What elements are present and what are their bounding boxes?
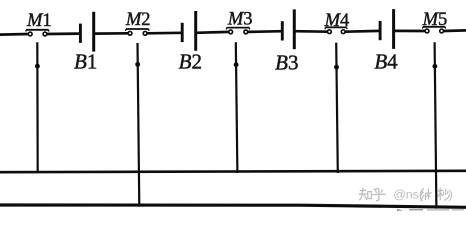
- svg-text:B1: B1: [74, 50, 97, 74]
- svg-text:@ns(: @ns(: [393, 188, 424, 202]
- switch M4 right terminal circle: [341, 30, 345, 34]
- switch M4 left terminal circle: [328, 30, 332, 34]
- svg-text:M5: M5: [422, 10, 448, 30]
- svg-text:): ): [449, 188, 453, 202]
- svg-text:B4: B4: [374, 50, 398, 74]
- switch M1 left terminal circle: [28, 32, 32, 36]
- switch M1 right terminal circle: [43, 32, 47, 36]
- wire: left edge to M1: [0, 33, 28, 36]
- watermark glyph 知: [359, 188, 367, 199]
- wire: B1 to M2: [94, 32, 128, 35]
- junction dot on M2 branch: [135, 62, 140, 67]
- watermark glyph 乎: [373, 189, 385, 201]
- wire: M4 to B4: [345, 30, 380, 34]
- wire: M2 to B2: [147, 31, 182, 34]
- switch M3 contact bar: [227, 27, 250, 29]
- svg-text:M2: M2: [125, 10, 151, 30]
- switch M2 contact bar: [126, 28, 149, 30]
- wire: M5 to right edge: [444, 29, 466, 32]
- battery B2 short plate (negative): [181, 23, 184, 42]
- bus A (upper horizontal bus): [0, 171, 466, 172]
- battery B1 long plate (positive): [92, 12, 95, 52]
- junction dot on M5 branch: [432, 64, 437, 69]
- switch M5 right terminal circle: [440, 29, 444, 33]
- svg-text:M3: M3: [227, 10, 253, 30]
- svg-text:M1: M1: [26, 11, 52, 31]
- junction dot on M4 branch: [334, 65, 339, 70]
- junction dot on M3 branch: [234, 62, 239, 67]
- watermark glyph 秒: [438, 188, 450, 200]
- switch M3 right terminal circle: [244, 30, 248, 34]
- battery B1 short plate (negative): [79, 24, 82, 43]
- battery B3 short plate (negative): [281, 21, 284, 40]
- battery B4 short plate (negative): [379, 21, 382, 40]
- switch M5 contact bar: [423, 26, 445, 28]
- svg-text:B3: B3: [275, 51, 298, 75]
- bus B (bottom horizontal bus): [0, 205, 466, 207]
- switch M2 left terminal circle: [128, 31, 132, 35]
- battery B4 long plate (positive): [392, 9, 395, 49]
- wire: vertical from M2 down to bus: [138, 43, 140, 207]
- switch M3 left terminal circle: [229, 30, 233, 34]
- wire: vertical from M4 down to bus: [336, 43, 338, 173]
- svg-text:B2: B2: [179, 49, 202, 73]
- watermark glyph 纳: [420, 189, 431, 201]
- junction dot on M1 branch: [35, 64, 40, 69]
- wire: M3 to B3: [248, 30, 283, 33]
- switch M5 left terminal circle: [425, 29, 429, 33]
- wire: B3 to M4: [294, 30, 327, 33]
- battery B2 long plate (positive): [194, 11, 197, 51]
- wire: M1 to B1: [47, 32, 81, 35]
- svg-text:M4: M4: [324, 11, 350, 31]
- wire: vertical from M1 down to bus: [36, 42, 39, 173]
- switch M2 right terminal circle: [143, 31, 147, 35]
- battery B3 long plate (positive): [293, 9, 296, 49]
- wire: vertical from M5 down to bus: [435, 42, 437, 208]
- switch M4 contact bar: [325, 26, 347, 28]
- switch M1 contact bar: [26, 29, 48, 31]
- wire: B4 to M5: [394, 30, 426, 33]
- url remnant marks under bus B: [397, 209, 464, 212]
- wire: vertical from M3 down to bus: [236, 42, 238, 173]
- wire: B2 to M3: [196, 31, 229, 35]
